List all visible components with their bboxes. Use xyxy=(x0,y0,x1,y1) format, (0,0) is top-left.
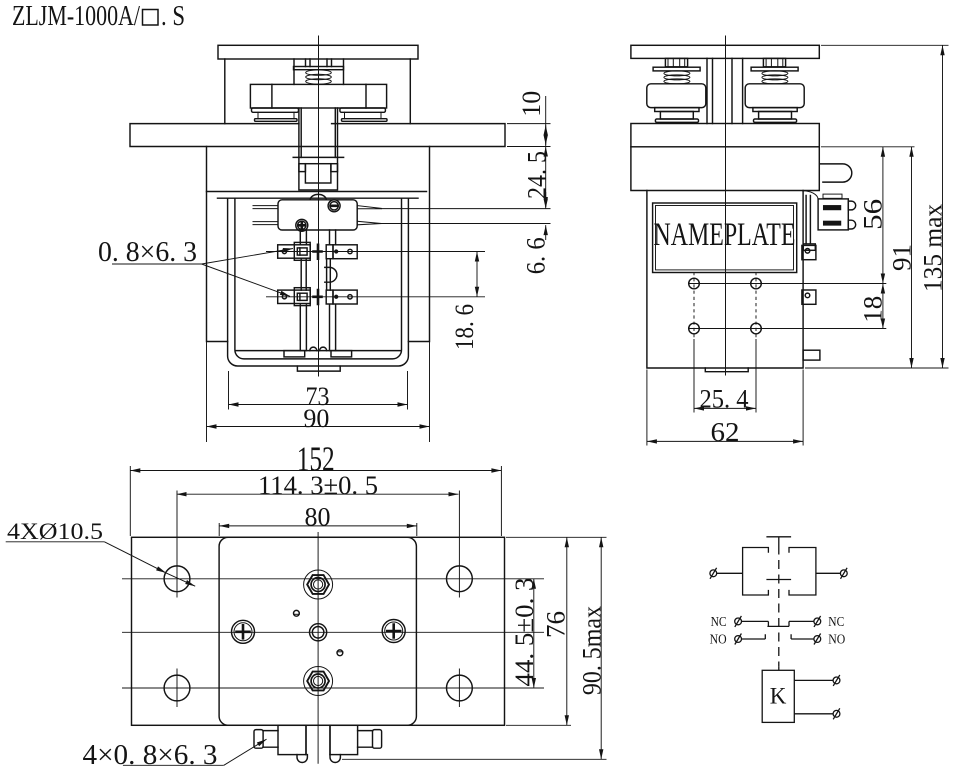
dome over microswitch xyxy=(310,194,326,199)
dim 18.6 xyxy=(476,252,478,297)
left spring unit bolt xyxy=(665,58,687,66)
bottom view centerlines and dimensions xyxy=(6,466,607,765)
ext right top xyxy=(506,536,607,538)
upper housing xyxy=(631,147,819,191)
leader 0.8x6.3 xyxy=(112,263,202,265)
dim 90 xyxy=(207,426,430,428)
floor bumps xyxy=(310,347,327,351)
svg-text:56: 56 xyxy=(859,199,888,230)
terminal column extensions xyxy=(694,339,756,413)
mounting plate side xyxy=(631,124,819,147)
ext body xyxy=(207,342,430,443)
svg-text:NAMEPLATE: NAMEPLATE xyxy=(654,217,796,253)
dim 44.5 xyxy=(533,579,535,688)
dim 80 xyxy=(219,525,417,527)
lower contact set left xyxy=(278,290,311,303)
prong extension lines xyxy=(381,209,550,224)
housing footprint rounded xyxy=(219,537,416,725)
svg-text:K: K xyxy=(770,684,787,709)
dim 90.5max xyxy=(600,537,602,759)
svg-text:NO: NO xyxy=(828,633,845,648)
svg-text:0. 8×6. 3: 0. 8×6. 3 xyxy=(98,237,197,268)
dim 91 xyxy=(911,147,913,368)
svg-text:NC: NC xyxy=(828,615,844,630)
NC left terminal xyxy=(735,618,742,625)
main contact left bracket xyxy=(743,548,769,596)
microswitch body xyxy=(278,200,357,230)
contact rods upper xyxy=(300,230,335,245)
svg-text:80: 80 xyxy=(305,503,331,532)
side clip 1 xyxy=(802,245,816,259)
wire right main xyxy=(816,572,841,574)
phillips screw left xyxy=(232,620,255,643)
NC bridge bar xyxy=(767,621,789,626)
svg-text:ZLJM-1000A/: ZLJM-1000A/ xyxy=(12,1,140,32)
side foot xyxy=(803,350,820,360)
dim 10 xyxy=(545,96,547,124)
left spring cup xyxy=(647,84,706,108)
svg-text:44. 5±0. 3: 44. 5±0. 3 xyxy=(510,578,539,687)
spring housing sides xyxy=(294,59,344,84)
case top lines xyxy=(207,192,427,199)
bottom tab side xyxy=(705,368,748,372)
chamber floor xyxy=(236,350,401,352)
lower contact set right xyxy=(326,290,333,304)
dim 114.3 xyxy=(177,493,459,495)
svg-text:135 max: 135 max xyxy=(919,204,948,292)
svg-text:10: 10 xyxy=(517,91,546,117)
switch terminals right xyxy=(357,206,381,225)
terminal bars (black) xyxy=(824,206,841,210)
view centerlines xyxy=(122,532,544,764)
svg-text:4×0. 8×6. 3: 4×0. 8×6. 3 xyxy=(83,740,218,771)
bottom terminal left block xyxy=(278,725,306,754)
main terminal left xyxy=(710,570,717,577)
left washer stack xyxy=(655,108,699,112)
stud above spring plate xyxy=(306,59,332,67)
center stud bottom xyxy=(304,667,333,696)
main contact right bracket xyxy=(789,548,816,596)
contact row centerlines xyxy=(266,252,485,297)
left spring washer xyxy=(653,67,700,71)
blowout lobe xyxy=(325,267,337,282)
moving bridge bar xyxy=(766,579,791,581)
hole column lines xyxy=(177,491,459,708)
arc chamber outer shell xyxy=(228,198,409,366)
ext 80 xyxy=(219,523,417,536)
ext 62 xyxy=(647,370,803,446)
ext plate bottom right xyxy=(821,146,915,148)
center stud top xyxy=(304,570,333,599)
svg-text:. S: . S xyxy=(161,1,185,32)
mounting plate front xyxy=(130,124,505,147)
ext cup bottom xyxy=(229,371,408,410)
dim 62 xyxy=(647,440,803,442)
mount hole BR xyxy=(447,675,473,701)
svg-text:76: 76 xyxy=(542,611,571,638)
svg-text:6. 6: 6. 6 xyxy=(522,237,551,274)
svg-text:91: 91 xyxy=(888,244,917,271)
ext 152 xyxy=(130,466,501,536)
return spring front xyxy=(306,70,332,84)
centerline front view xyxy=(318,36,320,376)
lower contact gap xyxy=(314,290,322,304)
right spring coil xyxy=(762,71,788,84)
centerline side view xyxy=(725,36,727,375)
terminal feet xyxy=(297,755,340,763)
upper contact set right xyxy=(326,245,333,259)
right spring washer xyxy=(751,67,798,71)
aux terminal top plate xyxy=(823,194,842,198)
svg-text:18. 6: 18. 6 xyxy=(450,304,479,350)
dim 25.4 xyxy=(694,407,756,409)
terminal column centerlines dashed xyxy=(694,272,756,339)
svg-text:90: 90 xyxy=(303,404,329,433)
svg-text:24. 5: 24. 5 xyxy=(523,151,552,199)
coil hook loop xyxy=(821,164,852,182)
dim 24.5 xyxy=(545,147,547,209)
svg-text:114. 3±0. 5: 114. 3±0. 5 xyxy=(258,471,378,500)
carrier skirt left xyxy=(252,108,299,112)
wire to coil xyxy=(778,666,780,670)
mount hole TL xyxy=(164,566,190,592)
svg-text:62: 62 xyxy=(711,417,740,447)
terminal screw bumps xyxy=(848,201,855,229)
coil wire top xyxy=(794,679,833,681)
dim 135max xyxy=(942,45,944,368)
NO right wire xyxy=(791,634,814,639)
svg-text:4XØ10.5: 4XØ10.5 xyxy=(7,519,103,544)
left spring coil xyxy=(664,71,690,84)
NC right terminal xyxy=(814,618,821,625)
top cap xyxy=(218,45,418,59)
right spring unit bolt xyxy=(763,58,785,66)
main terminal right xyxy=(840,570,847,577)
carrier skirt right xyxy=(340,108,386,112)
nameplate outer xyxy=(653,203,797,273)
housing corner arc xyxy=(803,191,819,199)
coil terminal circles xyxy=(689,278,700,289)
NO right terminal xyxy=(814,636,821,643)
ext right bottom 76 xyxy=(506,724,571,726)
NO left terminal xyxy=(735,636,742,643)
mid rods xyxy=(301,258,330,290)
leader 4x0.8x6.3 xyxy=(123,764,224,766)
coil terminal top xyxy=(833,677,840,684)
schematic centerline dashed xyxy=(778,546,780,667)
dim 152 xyxy=(130,470,501,472)
upper contact gap xyxy=(314,245,322,259)
armature side columns xyxy=(225,59,410,124)
svg-text:18: 18 xyxy=(859,296,888,323)
bottom tab front xyxy=(297,366,340,371)
arc chamber inner shell xyxy=(235,198,402,359)
dim 6.6 xyxy=(545,225,547,240)
coil terminal bottom xyxy=(833,710,840,717)
bottom terminal middle xyxy=(306,725,330,754)
base plate outline xyxy=(132,537,505,725)
microswitch screw A xyxy=(328,200,340,212)
right spring cup xyxy=(745,84,804,108)
moving bridge top bar xyxy=(766,537,791,546)
floor feet xyxy=(284,351,305,357)
front view dimensions xyxy=(112,96,551,442)
ext bottom 90.5 xyxy=(342,758,607,760)
svg-text:NO: NO xyxy=(710,633,727,648)
case walls xyxy=(207,147,430,342)
small screw A xyxy=(294,610,300,616)
svg-text:NC: NC xyxy=(711,615,727,630)
terminal row lines xyxy=(689,284,887,329)
dim 73 xyxy=(229,404,408,406)
right arm xyxy=(358,731,373,748)
mount hole BL xyxy=(164,675,190,701)
svg-text:90. 5max: 90. 5max xyxy=(578,606,607,695)
ext plate right xyxy=(507,124,551,147)
right washer stack xyxy=(753,108,797,112)
terminal strap xyxy=(806,196,810,244)
microswitch screw B xyxy=(296,219,308,231)
left arm xyxy=(263,731,278,748)
side view dimensions xyxy=(647,45,949,445)
top cap side xyxy=(631,45,819,58)
dim 18 xyxy=(882,284,884,329)
guide bracket under plate xyxy=(293,156,343,158)
coil wire bottom xyxy=(794,713,833,715)
moving contact carrier block xyxy=(250,84,386,108)
upper contact set left xyxy=(278,245,311,258)
ext cap top right xyxy=(821,44,949,46)
coil K box xyxy=(762,670,794,722)
NC left wire xyxy=(742,621,769,626)
side clip 2 xyxy=(802,290,816,304)
bottom terminal right block xyxy=(330,725,358,754)
aux terminal block xyxy=(818,199,848,230)
ext body bottom right xyxy=(805,367,949,369)
mount hole TR xyxy=(447,566,473,592)
lower rods xyxy=(300,304,335,350)
dim 56 xyxy=(882,147,884,284)
nameplate inner xyxy=(656,206,794,270)
NC right wire xyxy=(789,620,814,622)
phillips screw right xyxy=(382,620,405,643)
small screw B xyxy=(337,650,343,656)
svg-text:25. 4: 25. 4 xyxy=(700,385,749,414)
wire left main xyxy=(717,572,743,574)
center pin xyxy=(310,624,327,641)
switch terminals left xyxy=(253,206,278,225)
hole row lines xyxy=(122,579,544,688)
title ZLJM-1000A/[].S xyxy=(12,1,185,32)
lower housing xyxy=(647,191,803,369)
dim 76 xyxy=(566,537,568,725)
center column xyxy=(707,58,743,123)
NO left wire xyxy=(742,634,766,639)
spring retainer plate xyxy=(294,67,344,70)
shaft neck xyxy=(299,108,338,157)
leader 4xD10.5 xyxy=(6,541,105,543)
